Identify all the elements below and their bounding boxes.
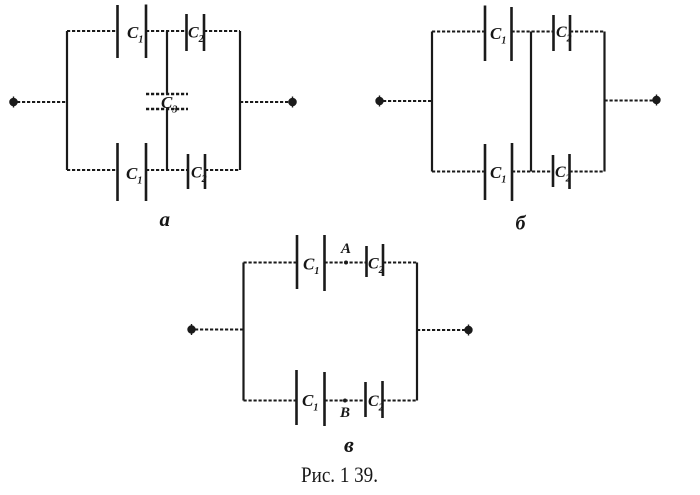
svg-text:в: в bbox=[344, 432, 354, 457]
svg-text:B: B bbox=[339, 405, 350, 421]
svg-text:A: A bbox=[340, 241, 351, 257]
svg-text:б: б bbox=[516, 213, 527, 235]
svg-text:Рис. 1 39.: Рис. 1 39. bbox=[301, 462, 378, 487]
svg-text:а: а bbox=[160, 207, 171, 231]
